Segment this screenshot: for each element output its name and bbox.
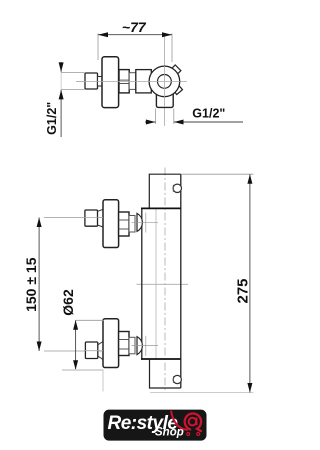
svg-text:G1/2": G1/2" xyxy=(45,102,59,135)
svg-text:Shop: Shop xyxy=(155,426,184,438)
svg-text:G1/2": G1/2" xyxy=(192,107,225,121)
svg-text:275: 275 xyxy=(235,278,252,303)
svg-text:150 ± 15: 150 ± 15 xyxy=(23,257,39,312)
svg-text:~77: ~77 xyxy=(122,19,147,35)
svg-text:Ø62: Ø62 xyxy=(60,289,76,316)
